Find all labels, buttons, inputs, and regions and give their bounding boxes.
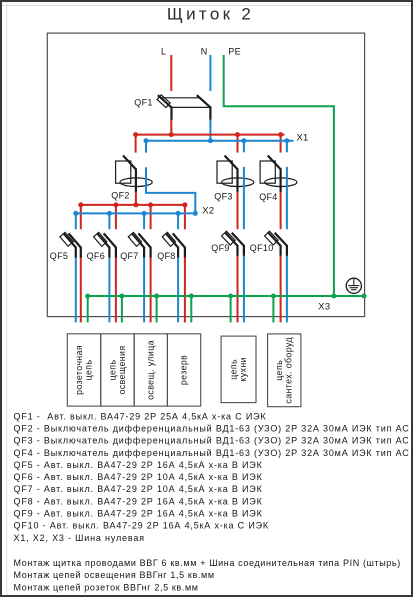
svg-text:Монтаж цепей розеток ВВГнг 2,5: Монтаж цепей розеток ВВГнг 2,5 кв.мм (14, 583, 199, 593)
svg-text:QF10 - Авт. выкл. ВА47-29 2Р 1: QF10 - Авт. выкл. ВА47-29 2Р 16А 4,5кА х… (14, 521, 269, 531)
panel box (47, 33, 364, 317)
circuit label box розеточная цепь (67, 334, 100, 406)
breaker QF6 (94, 232, 116, 258)
wire PE drop QF9 (230, 296, 232, 322)
circuit label box резерв (167, 334, 200, 406)
svg-text:QF4: QF4 (259, 192, 277, 202)
svg-text:освещения: освещения (117, 345, 127, 394)
wire QF7 L out (150, 257, 152, 322)
wire QF1 N out (209, 120, 211, 142)
breaker QF7 (128, 232, 150, 258)
circuit label box цепь кухни (221, 336, 256, 403)
svg-text:сантех. оборуд: сантех. оборуд (284, 337, 294, 404)
RCD QF2 (116, 156, 153, 193)
svg-text:Монтаж цепей освещения ВВГнг 1: Монтаж цепей освещения ВВГнг 1,5 кв.мм (14, 570, 215, 580)
svg-text:L: L (161, 47, 166, 57)
svg-text:QF3 - Выключатель дифференциал: QF3 - Выключатель дифференциальный ВД1-6… (14, 436, 410, 446)
RCD QF3 (217, 156, 254, 193)
svg-text:QF1: QF1 (134, 97, 152, 107)
wire QF4 N out (286, 167, 288, 229)
wire QF10 N out (286, 256, 288, 323)
svg-text:QF9 - Авт. выкл. ВА47-29 2Р 16: QF9 - Авт. выкл. ВА47-29 2Р 16А 4,5кА х-… (14, 509, 263, 519)
svg-text:QF7: QF7 (120, 251, 138, 261)
wire QF7 N out (143, 257, 145, 322)
wire PE drop QF6 (121, 296, 123, 322)
wire QF4 L out (280, 192, 282, 229)
svg-text:QF5 - Авт. выкл. ВА47-29 2Р 16: QF5 - Авт. выкл. ВА47-29 2Р 16А 4,5кА х-… (14, 460, 263, 470)
svg-text:PE: PE (228, 47, 241, 57)
wire QF9 L out (237, 256, 239, 323)
svg-text:QF9: QF9 (211, 243, 229, 253)
svg-text:X3: X3 (318, 300, 330, 311)
breaker QF8 (162, 232, 185, 258)
svg-text:QF6: QF6 (87, 251, 105, 261)
svg-text:QF8: QF8 (157, 251, 175, 261)
breaker QF5 (60, 232, 81, 258)
wire QF2 L out (135, 192, 137, 205)
bus X2 N (blue) (73, 211, 198, 229)
wire QF6 N out (108, 257, 110, 322)
circuit label box цепь освещения (101, 334, 135, 406)
breaker QF10 (265, 231, 287, 256)
svg-text:QF2: QF2 (111, 190, 129, 200)
wire PE drop QF5 (87, 296, 89, 322)
svg-text:QF8 - Авт. выкл. ВА47-29 2Р 16: QF8 - Авт. выкл. ВА47-29 2Р 16А 4,5кА х-… (14, 496, 263, 506)
bus X2 L (red) (78, 202, 187, 229)
wire QF8 N out (177, 257, 179, 322)
svg-text:освещ. улица: освещ. улица (145, 340, 155, 400)
wire N feed (209, 55, 211, 91)
svg-text:цепь: цепь (107, 360, 117, 381)
wire PE drop QF8 (190, 296, 192, 322)
wire PE drop QF10 (272, 296, 274, 322)
svg-text:QF6 - Авт. выкл. ВА47-29 2Р 10: QF6 - Авт. выкл. ВА47-29 2Р 10А 4,5кА х-… (14, 472, 263, 482)
svg-text:X2: X2 (202, 204, 214, 215)
svg-text:резерв: резерв (179, 355, 189, 385)
breaker QF9 (222, 231, 244, 256)
circuit label box цепь сантех. оборуд (268, 334, 301, 407)
bus X1 L (red) (133, 132, 284, 153)
circuit label box освещ. улица (134, 334, 167, 406)
ground symbol (346, 278, 361, 293)
wire L feed (170, 55, 172, 91)
svg-text:QF3: QF3 (214, 192, 232, 202)
breaker QF1 (157, 95, 210, 120)
svg-text:Щиток 2: Щиток 2 (167, 5, 254, 24)
wire QF1 L out (170, 120, 172, 135)
svg-text:QF4 - Выключатель дифференциал: QF4 - Выключатель дифференциальный ВД1-6… (14, 448, 410, 458)
wire QF10 L out (280, 256, 282, 323)
wire PE feed (224, 55, 334, 296)
RCD QF4 (260, 156, 297, 193)
svg-text:QF10: QF10 (250, 243, 274, 253)
svg-text:QF1 - Авт. выкл. ВА47-29 2Р 2: QF1 - Авт. выкл. ВА47-29 2Р 25А 4,5кА х-… (14, 411, 267, 421)
svg-text:X1: X1 (297, 132, 309, 143)
wire QF3 L out (237, 192, 239, 229)
wire QF5 L out (80, 257, 82, 322)
svg-text:QF7 - Авт. выкл. ВА47-29 2Р 10: QF7 - Авт. выкл. ВА47-29 2Р 10А 4,5кА х-… (14, 484, 263, 494)
svg-text:кухни: кухни (238, 357, 248, 382)
svg-text:розеточная: розеточная (74, 345, 84, 395)
wire QF8 L out (184, 257, 186, 322)
svg-text:цепь: цепь (274, 360, 284, 381)
svg-text:X1, X2, X3 - Шина нулевая: X1, X2, X3 - Шина нулевая (14, 533, 145, 543)
wire QF6 L out (115, 257, 117, 322)
svg-text:QF2 - Выключатель дифференциал: QF2 - Выключатель дифференциальный ВД1-6… (14, 423, 410, 433)
svg-text:цепь: цепь (84, 360, 94, 381)
svg-text:N: N (201, 47, 208, 57)
wire QF9 N out (243, 256, 245, 323)
wire PE drop QF7 (156, 296, 158, 322)
svg-text:Монтаж щитка проводами ВВГ 6 к: Монтаж щитка проводами ВВГ 6 кв.мм + Шин… (14, 558, 401, 568)
wire QF3 N out (243, 167, 245, 229)
svg-text:QF5: QF5 (50, 251, 68, 261)
svg-text:цепь: цепь (228, 359, 238, 380)
wire QF2 N out (146, 167, 195, 213)
bus X1 N (blue) (144, 138, 294, 152)
bus X3 PE (green) (85, 294, 366, 299)
wire QF5 N out (75, 257, 77, 322)
